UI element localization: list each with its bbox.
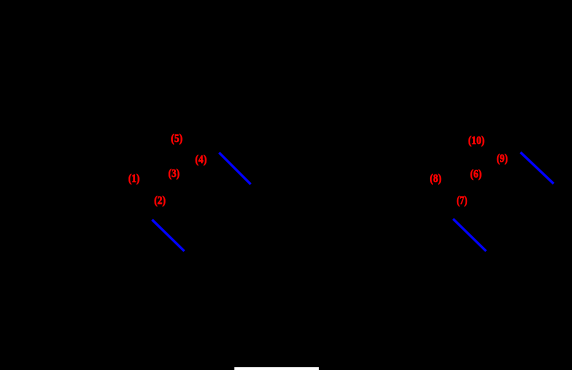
svg-text:(7): (7) [457, 193, 468, 207]
svg-text:(1): (1) [128, 171, 140, 185]
svg-text:(6): (6) [470, 167, 482, 181]
svg-text:(5): (5) [171, 131, 183, 145]
svg-text:(9): (9) [497, 151, 508, 165]
svg-text:(4): (4) [195, 152, 207, 166]
wire: bold bond (blue) lower, right molecule [453, 219, 486, 251]
wire: bold bond (blue) upper, right molecule [521, 152, 554, 183]
svg-text:(2): (2) [154, 193, 166, 207]
wire: bold bond (blue) lower, left molecule [152, 220, 184, 251]
svg-text:(10): (10) [468, 133, 485, 147]
svg-text:(3): (3) [168, 166, 179, 180]
wire: bold bond (blue) upper, left molecule [219, 153, 251, 185]
white caption box (clipped at bottom edge) [234, 367, 319, 370]
svg-text:(8): (8) [430, 171, 442, 185]
